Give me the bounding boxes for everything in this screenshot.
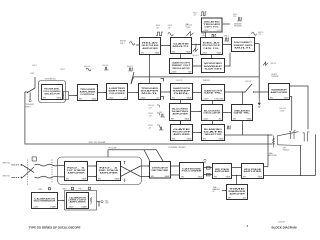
svg-text:GEN.: GEN. — [173, 93, 191, 95]
block cathode follower — [180, 163, 204, 179]
wire gen to gating — [193, 92, 202, 94]
wire q4 out bottom — [264, 175, 316, 177]
svg-text:MULTIVIBRATOR: MULTIVIBRATOR — [34, 200, 57, 203]
svg-text:BLOCK DIAGRAM: BLOCK DIAGRAM — [272, 225, 298, 229]
wire gate sel to blanking — [193, 132, 202, 134]
svg-text:GAIN: GAIN — [219, 137, 224, 140]
arrowhead input a arrow — [13, 163, 14, 166]
connector cal out — [101, 201, 103, 203]
block first stage amplifier — [65, 162, 88, 181]
enclosure calibrator output — [65, 191, 97, 211]
arrowhead attb — [148, 176, 149, 177]
svg-text:PIN 8+4V: PIN 8+4V — [149, 113, 153, 117]
CRT screen plates right — [303, 132, 310, 142]
svg-text:+5V: +5V — [156, 97, 160, 99]
wire coax b — [35, 176, 58, 178]
svg-text:SELECTOR: SELECTOR — [44, 93, 60, 95]
arrowhead into sweep gen — [169, 91, 170, 92]
svg-text:SAWTOOTH: SAWTOOTH — [172, 62, 191, 65]
svg-text:SW: SW — [172, 97, 175, 99]
wire q4 out top — [264, 166, 269, 168]
svg-text:SW: SW — [214, 176, 217, 178]
svg-text:GAIN: GAIN — [284, 96, 289, 99]
svg-text:SLAVE GATE: SLAVE GATE — [204, 67, 222, 70]
wire unblanking bottom stub — [242, 121, 244, 136]
wire limiter to shaper — [128, 92, 139, 94]
waveform glyph sine into relay — [130, 42, 135, 46]
switch box trigger coupling — [64, 92, 69, 100]
arrowhead into shaper — [137, 92, 138, 93]
svg-text:SW: SW — [141, 52, 144, 54]
wire shaper to sweep gen — [161, 91, 171, 93]
svg-text:MULTI.: MULTI. — [173, 46, 191, 48]
svg-text:SW: SW — [171, 118, 174, 120]
waveform glyph glyph left of gatesel — [159, 127, 164, 130]
ground symbol right bus — [258, 100, 261, 108]
svg-text:+10V: +10V — [242, 197, 247, 199]
block unblanking gate trl — [232, 105, 253, 121]
enclosure trigger selector — [39, 81, 66, 103]
svg-text:LOADNETWORK: LOADNETWORK — [268, 152, 277, 157]
svg-text:SW: SW — [98, 178, 101, 180]
wire tm stub — [236, 176, 238, 185]
wire crt left vertical — [267, 135, 269, 167]
wire pickoff diag 1 — [144, 150, 150, 162]
waveform glyph pulse b — [104, 67, 109, 70]
svg-text:FIG 2-4V: FIG 2-4V — [168, 25, 172, 29]
arrowhead b1b2t — [95, 165, 96, 166]
block delay pickoff — [201, 38, 223, 55]
svg-text:SW: SW — [151, 176, 154, 178]
wire ext trig feed — [25, 91, 28, 93]
svg-text:AMPLIFIER: AMPLIFIER — [173, 133, 190, 136]
junction input a dot — [21, 164, 23, 166]
junction input b dot — [21, 177, 23, 179]
waveform glyph glyph left of shaping — [161, 114, 166, 117]
svg-text:MULTI.: MULTI. — [234, 47, 252, 49]
svg-text:AMPLIFIER: AMPLIFIER — [271, 91, 289, 94]
svg-text:T-84-34: T-84-34 — [278, 222, 285, 224]
waveform glyph sine above gate — [168, 33, 174, 36]
block blocking shaping amplifier — [170, 104, 191, 121]
wire sweep amp out bottom — [290, 97, 292, 131]
svg-text:EXT: EXT — [31, 73, 36, 75]
block time marker amplifier — [227, 185, 248, 200]
svg-text:CATH. FOL.: CATH. FOL. — [203, 47, 220, 50]
svg-text:GAIN: GAIN — [187, 96, 192, 99]
svg-text:A: A — [247, 225, 249, 228]
svg-text:PIN 5: PIN 5 — [39, 189, 43, 191]
wire selector to control — [69, 95, 78, 97]
CRT horizontal deflection plates left — [289, 131, 296, 139]
wire oscillator to unblanking — [223, 112, 232, 114]
svg-text:FIG 2-1: FIG 2-1 — [85, 66, 91, 68]
wire blanking top stub — [212, 121, 214, 125]
svg-text:SW: SW — [79, 98, 82, 100]
svg-text:TYPE OS SERIES OF OSCILLOSCOPE: TYPE OS SERIES OF OSCILLOSCOPE — [29, 226, 81, 229]
wire switch blade — [28, 88, 36, 93]
wire k1 to k2 — [58, 200, 65, 202]
wire crt bottom plate feed — [300, 145, 302, 175]
wire selector small box link — [63, 95, 64, 97]
CRT envelope — [273, 132, 301, 146]
test point above cf — [204, 160, 207, 163]
waveform glyph glyph right of blanking — [227, 126, 232, 129]
wire disconnect gate out — [255, 43, 260, 45]
svg-text:OSCILLATOR: OSCILLATOR — [204, 112, 222, 115]
wire delayed trigger output — [222, 23, 229, 25]
arrowhead into disconnect gate — [230, 44, 231, 45]
svg-text:SWEEP GATE: SWEEP GATE — [234, 44, 254, 47]
svg-text:+100V: +100V — [203, 98, 209, 100]
block blocking oscillator — [202, 105, 223, 121]
svg-text:START: START — [81, 205, 88, 208]
junction crt blank dot — [267, 134, 268, 135]
arrowhead delayed trig out — [229, 23, 230, 24]
wire ps to q4 top — [232, 167, 242, 169]
svg-text:FROMPIN J: FROMPIN J — [120, 41, 126, 46]
wire coax b tail — [58, 176, 65, 178]
svg-text:DELAYEDTRIGGER: DELAYEDTRIGGER — [234, 22, 243, 27]
waveform glyph sq c — [129, 68, 134, 71]
svg-text:AMPLIFIER: AMPLIFIER — [67, 171, 85, 174]
block sweep gating multi — [202, 85, 225, 101]
svg-text:EXTERNAL TRIGGER: EXTERNAL TRIGGER — [169, 146, 187, 149]
svg-text:LIMITER & OUTPUT: LIMITER & OUTPUT — [69, 199, 87, 201]
svg-text:SW: SW — [203, 138, 206, 140]
svg-text:FIG 2-10+150V: FIG 2-10+150V — [280, 108, 287, 112]
svg-text:PIN 1: PIN 1 — [79, 188, 83, 190]
svg-text:-8V: -8V — [218, 118, 222, 120]
wire trigger input stub — [29, 93, 31, 100]
waveform glyph sq above delayed trigger — [201, 12, 207, 16]
svg-text:TRIGGERINPUT: TRIGGERINPUT — [26, 104, 35, 108]
tp square k1 — [48, 188, 50, 190]
wire to att top — [141, 165, 150, 167]
svg-text:MULTI.: MULTI. — [141, 93, 159, 95]
svg-text:INPUT A: INPUT A — [3, 162, 11, 165]
waveform glyph sq left of disconnect — [225, 38, 230, 41]
svg-text:SW: SW — [270, 97, 273, 99]
tick label a — [157, 105, 159, 107]
svg-text:FIG 3: FIG 3 — [225, 35, 229, 37]
arrowhead tm in arrow — [225, 190, 226, 191]
waveform glyph saw above gate right — [187, 32, 194, 36]
svg-text:DISCONN: DISCONN — [215, 98, 224, 100]
svg-text:SW: SW — [181, 176, 184, 178]
svg-text:FIG 2-5: FIG 2-5 — [193, 55, 199, 57]
svg-text:SW: SW — [243, 176, 246, 178]
wire coax a — [35, 164, 58, 166]
svg-text:GAIN: GAIN — [57, 96, 62, 99]
wire vertical bus right of sweep — [258, 44, 260, 100]
block disconnect sweep gate — [232, 38, 255, 52]
block relay selector and amplifier — [140, 38, 161, 55]
wire sw cross a — [23, 165, 35, 173]
svg-text:CRTT5030-2: CRTT5030-2 — [283, 147, 290, 151]
waveform glyph sq above relay right — [156, 32, 163, 36]
arrowhead into limiter — [105, 92, 106, 93]
waveform glyph sine right of disconnect — [252, 32, 257, 35]
arrowhead into pickoff — [199, 44, 200, 45]
connector trigger input — [29, 100, 31, 102]
wire blanking line to crt — [225, 134, 273, 136]
tp square k2b — [88, 187, 90, 189]
wire gatesel top stub — [180, 121, 182, 125]
wire att to cf top — [171, 165, 180, 167]
svg-text:FIG 7-2V: FIG 7-2V — [193, 13, 197, 17]
block sawtooth sweep gen — [171, 84, 193, 100]
svg-text:NETWORK: NETWORK — [152, 170, 170, 172]
svg-text:FIG 2-6+20V: FIG 2-6+20V — [187, 25, 193, 29]
svg-text:GAIN: GAIN — [226, 175, 231, 178]
svg-text:GATE: GATE — [173, 42, 191, 45]
interconnect plugs — [207, 167, 211, 170]
svg-text:GATE TRL.: GATE TRL. — [234, 112, 252, 115]
svg-text:OUT: OUT — [217, 30, 222, 32]
svg-text:AMPLIFIER: AMPLIFIER — [244, 170, 263, 173]
svg-text:+100V: +100V — [171, 71, 177, 73]
svg-text:FIG 2-7: FIG 2-7 — [271, 63, 277, 65]
svg-text:GAIN: GAIN — [187, 137, 192, 140]
svg-text:TIME/CM: TIME/CM — [203, 80, 211, 82]
svg-text:GAIN: GAIN — [198, 175, 203, 178]
svg-text:PIN 2: PIN 2 — [61, 69, 65, 71]
waveform glyph saw on right bus — [263, 62, 268, 65]
svg-text:+100V: +100V — [203, 118, 209, 120]
wire coax a tail — [58, 164, 65, 166]
svg-text:RELAY: RELAY — [142, 42, 159, 45]
wire delay pickoff to delayed trigger — [205, 32, 207, 38]
junction sw dot b — [253, 91, 254, 92]
wire gating down — [212, 101, 214, 105]
svg-text:SW: SW — [172, 138, 175, 140]
wire gate to pickoff — [192, 44, 201, 46]
svg-text:SELECTOR AND: SELECTOR AND — [142, 44, 159, 47]
svg-text:FIG 2-9: FIG 2-9 — [177, 80, 183, 82]
wire junction stub down — [195, 45, 197, 48]
svg-text:DISCONNECT: DISCONNECT — [234, 42, 253, 44]
svg-text:AMPLIFIER: AMPLIFIER — [229, 192, 245, 195]
svg-text:HORIZDISPLAY: HORIZDISPLAY — [272, 74, 280, 78]
junction q4 dot — [300, 175, 301, 176]
wire gating out — [225, 91, 245, 93]
svg-text:+100V: +100V — [203, 30, 209, 32]
svg-text:GAIN: GAIN — [115, 177, 120, 180]
waveform glyph sq above pickoff — [211, 34, 216, 37]
wire pickoff down to slave gate — [211, 55, 213, 59]
block trigger shaper multi — [139, 84, 161, 100]
wire cf to ps top — [204, 167, 213, 169]
svg-text:FIG 2-1+2V: FIG 2-1+2V — [149, 105, 155, 109]
svg-text:FIG 2-3V: FIG 2-3V — [156, 25, 160, 29]
svg-text:SW: SW — [228, 197, 231, 199]
svg-text:FIG 2-5+5V: FIG 2-5+5V — [258, 32, 264, 36]
svg-text:HOLDOFF: HOLDOFF — [109, 148, 117, 150]
arrowhead into blanking sel — [200, 132, 201, 133]
block second stage amplifier — [97, 162, 121, 181]
arrowhead into oscillator — [200, 111, 201, 112]
wire tab shaper top — [161, 79, 164, 82]
wire unblanking top stub — [242, 93, 244, 105]
wire ps to q4 bot — [232, 175, 242, 177]
svg-text:GAIN: GAIN — [258, 175, 263, 178]
wire gang dashes 2 — [51, 160, 53, 184]
junction sw dot a — [244, 91, 245, 92]
svg-text:GAIN: GAIN — [92, 97, 97, 100]
wire slave gate up right — [225, 53, 231, 67]
svg-text:PIN 6-2V: PIN 6-2V — [149, 125, 153, 129]
svg-text:SW: SW — [43, 97, 46, 99]
svg-text:+100V: +100V — [108, 97, 114, 99]
svg-text:SW: SW — [188, 71, 191, 73]
block calibration limiter output amplifier — [67, 193, 89, 209]
svg-text:GAIN: GAIN — [247, 117, 252, 120]
svg-text:+100V: +100V — [140, 97, 146, 99]
wire to att bot — [141, 176, 150, 178]
svg-text:INPUT B: INPUT B — [3, 175, 11, 177]
svg-text:AMPLIFIER: AMPLIFIER — [215, 170, 231, 173]
wire shaping to oscillator — [191, 111, 202, 113]
wire gating out 2 — [254, 91, 269, 93]
svg-text:START: START — [50, 205, 57, 208]
wire switch horiz display — [246, 84, 253, 92]
wire tm in wire — [222, 190, 227, 192]
wire gang dashes input — [27, 160, 29, 186]
block trigger amplifier control — [78, 85, 98, 101]
wire att to cf bot — [171, 174, 180, 176]
junction tm dot — [236, 175, 237, 176]
svg-text:FIG 2: FIG 2 — [33, 65, 37, 67]
svg-text:GAIN: GAIN — [186, 50, 191, 53]
svg-text:+5V: +5V — [123, 97, 127, 99]
wire pickoff line 2 — [108, 149, 156, 151]
arrowhead into gate — [169, 45, 170, 46]
wire cross a — [121, 166, 141, 177]
wire regulator to slave gate — [193, 65, 202, 67]
svg-text:CALIBRATION: CALIBRATION — [69, 196, 87, 199]
svg-text:+100V: +100V — [202, 52, 208, 54]
arrowhead input b arrow — [13, 176, 14, 179]
svg-text:REGULATOR: REGULATOR — [172, 67, 190, 70]
svg-text:TIMEMARKERIN: TIMEMARKERIN — [213, 187, 221, 193]
wire ext stub — [34, 77, 36, 88]
block blanking gate selector — [202, 125, 226, 141]
enclosure vertical preamp plug-in — [58, 157, 142, 185]
wire horizontal bus — [134, 76, 260, 78]
wire pickoff to gate2 — [223, 44, 232, 46]
svg-text:SW: SW — [66, 178, 69, 180]
svg-text:GAIN: GAIN — [82, 177, 87, 180]
wire sweep amp out top — [290, 86, 309, 129]
block third stage amplifier — [213, 164, 232, 179]
block sawtooth sweep volt regulator — [170, 59, 193, 74]
wire gate down to regulator — [180, 54, 182, 59]
wire gen down — [180, 100, 182, 104]
tick label b — [157, 113, 159, 115]
svg-text:SW: SW — [172, 51, 175, 53]
svg-text:CATH. FOL.: CATH. FOL. — [204, 26, 219, 29]
svg-text:+100V: +100V — [33, 206, 39, 208]
resistor crt cathode — [272, 138, 274, 147]
block trigger ampl and squaring selector — [42, 85, 63, 100]
arrowhead attt — [148, 165, 149, 166]
junction unblanking stub dot — [242, 91, 243, 92]
wire tab shaper bot — [161, 97, 164, 100]
svg-text:GATE TRL.: GATE TRL. — [204, 92, 224, 95]
wire relay to gate — [161, 45, 171, 47]
wire cal out stub — [98, 202, 100, 207]
block modified sweep slave gate — [202, 59, 225, 73]
block sweep gate multi — [171, 38, 192, 54]
wire relay to trigger shaper — [149, 55, 151, 84]
tp square k2a — [71, 187, 73, 189]
svg-text:GAIN: GAIN — [185, 117, 190, 120]
wire b1 to b2 bot — [88, 176, 97, 178]
block calibration multivibrator — [32, 193, 58, 209]
svg-text:GAIN: GAIN — [155, 51, 160, 54]
svg-text:FIG 24.2V: FIG 24.2V — [202, 33, 206, 37]
svg-text:FOLLOWER: FOLLOWER — [182, 171, 203, 173]
waveform glyph sq right of delayed trigger — [238, 18, 243, 21]
wire cal out wire — [97, 201, 101, 203]
arrowhead k1k2 — [63, 200, 64, 201]
svg-text:VERT. SIG. TRIGGER: VERT. SIG. TRIGGER — [89, 142, 107, 144]
wire pointer to shaper — [131, 72, 134, 84]
block sweep amplifier — [269, 84, 290, 100]
wire pickoff stub left — [107, 150, 109, 157]
coupling box — [32, 157, 36, 161]
block delayed trigger cathode follower — [202, 18, 223, 32]
svg-text:GAIN: GAIN — [165, 175, 170, 178]
resistor calibrator out — [90, 197, 92, 205]
wire cf to ps bot — [204, 174, 213, 176]
svg-text:SELECTOR: SELECTOR — [204, 134, 222, 136]
svg-text:SW: SW — [233, 118, 236, 120]
svg-text:FIG 2-6: FIG 2-6 — [246, 81, 252, 83]
trimmer arrows — [124, 161, 126, 182]
waveform glyph sine a — [86, 68, 91, 71]
block gate selector amplifier — [171, 125, 193, 141]
svg-text:GAIN: GAIN — [217, 51, 222, 54]
svg-text:FOLLOWER: FOLLOWER — [109, 93, 125, 95]
waveform glyph saw below junction — [193, 48, 198, 51]
wire shaping bottom stub — [180, 121, 182, 125]
wire pickoff diag 2 — [156, 150, 163, 162]
svg-text:PIN 3: PIN 3 — [63, 189, 67, 191]
wire input b lead — [12, 177, 21, 179]
block limiter emitter follower — [107, 84, 128, 100]
arrowhead b1b2b — [95, 176, 96, 177]
svg-text:MODIFIED: MODIFIED — [204, 63, 223, 65]
svg-text:CAL.OUT: CAL.OUT — [105, 199, 109, 204]
svg-text:TRIGGER SEL.: TRIGGER SEL. — [45, 79, 57, 81]
wire internal trigger pickoff — [25, 92, 273, 144]
junction junction gate out — [195, 44, 196, 45]
wire cross b — [121, 166, 141, 177]
wire bus pointer diagonal — [131, 77, 134, 84]
wire b1 to b2 top — [88, 165, 97, 167]
svg-text:AMPLIFIER: AMPLIFIER — [100, 171, 119, 174]
wire crt right feed — [315, 135, 317, 176]
junction switch pivot — [27, 92, 28, 93]
wire input a lead — [12, 164, 21, 166]
block fourth stage amplifier — [242, 164, 264, 179]
wire sw cross b — [23, 167, 35, 178]
arrowhead cal stub arrow — [98, 206, 99, 207]
block delay line attenuator network — [150, 162, 171, 179]
svg-text:DELAY: DELAY — [203, 42, 221, 45]
